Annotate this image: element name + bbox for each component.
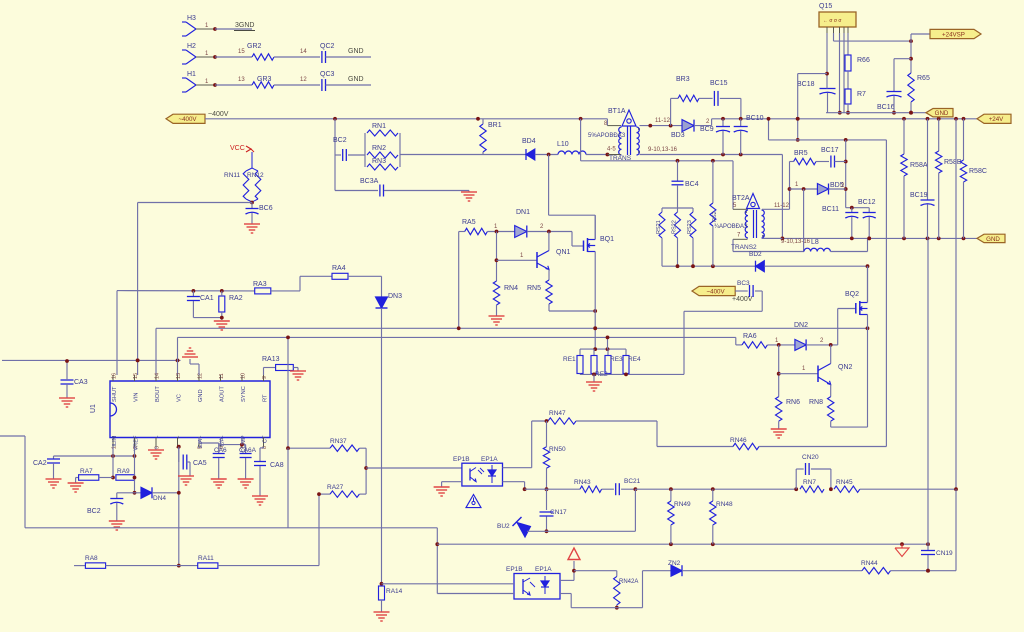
svg-text:15: 15	[238, 49, 245, 55]
svg-text:RS23: RS23	[687, 220, 693, 234]
svg-text:BC10: BC10	[746, 115, 764, 122]
svg-text:RN45: RN45	[836, 479, 853, 486]
svg-text:EP1B: EP1B	[506, 566, 523, 573]
svg-text:RN43: RN43	[574, 479, 591, 486]
svg-text:14: 14	[155, 373, 161, 379]
svg-text:BC21: BC21	[624, 478, 641, 485]
svg-text:VIN: VIN	[133, 393, 139, 402]
svg-text:DN1: DN1	[516, 209, 530, 216]
svg-text:RA4: RA4	[332, 265, 346, 272]
svg-text:RA14: RA14	[386, 588, 403, 595]
svg-text:BD2: BD2	[749, 251, 762, 258]
svg-text:ZN2: ZN2	[668, 560, 681, 567]
svg-text:QN2: QN2	[838, 364, 853, 371]
svg-text:11-12: 11-12	[655, 118, 671, 124]
svg-text:BQ2: BQ2	[845, 291, 859, 298]
svg-text:¾APOBĐAЗ: ¾APOBĐAЗ	[714, 224, 748, 230]
svg-text:H2: H2	[187, 43, 196, 50]
svg-text:BQ1: BQ1	[600, 236, 614, 243]
svg-text:3GND: 3GND	[235, 22, 254, 29]
svg-text:RS22: RS22	[672, 220, 678, 234]
svg-text:RA13: RA13	[262, 356, 280, 363]
svg-text:9-10,13-16: 9-10,13-16	[781, 239, 811, 245]
svg-text:DN4: DN4	[153, 495, 166, 502]
svg-text:BC2: BC2	[87, 508, 101, 515]
svg-text:RN2: RN2	[372, 145, 386, 152]
svg-text:CN19: CN19	[936, 550, 953, 557]
svg-text:R66: R66	[857, 57, 870, 64]
svg-text:VCC: VCC	[230, 145, 245, 152]
svg-text:GND: GND	[348, 76, 364, 83]
svg-text:~400V: ~400V	[707, 288, 726, 295]
svg-text:CA2: CA2	[33, 460, 47, 467]
svg-text:RT: RT	[262, 394, 268, 402]
svg-text:GND: GND	[198, 389, 204, 402]
svg-text:L10: L10	[557, 141, 569, 148]
svg-text:5%APOBĐAЗ: 5%APOBĐAЗ	[588, 133, 626, 139]
svg-text:13: 13	[176, 373, 182, 379]
svg-text:-: -	[155, 435, 161, 437]
svg-text:RN37: RN37	[330, 438, 347, 445]
svg-text:BC3A: BC3A	[360, 178, 379, 185]
svg-text:BC9: BC9	[700, 126, 714, 133]
svg-text:11-12: 11-12	[774, 203, 790, 209]
svg-text:CA3: CA3	[74, 379, 88, 386]
svg-text:U1: U1	[90, 404, 97, 413]
svg-text:BT1A: BT1A	[608, 108, 626, 115]
svg-text:BR5: BR5	[794, 150, 808, 157]
svg-text:CN20: CN20	[802, 454, 819, 461]
svg-text:H3: H3	[187, 15, 196, 22]
svg-text:BC4: BC4	[685, 181, 699, 188]
svg-text:RN49: RN49	[674, 501, 691, 508]
svg-text:H1: H1	[187, 71, 196, 78]
svg-text:EP1A: EP1A	[481, 456, 498, 463]
svg-text:RN44: RN44	[861, 560, 878, 567]
svg-text:BC16: BC16	[877, 104, 895, 111]
svg-text:BR3: BR3	[676, 76, 690, 83]
svg-text:BC12: BC12	[858, 199, 876, 206]
svg-text:BC18: BC18	[797, 81, 815, 88]
svg-text:BC6: BC6	[259, 205, 273, 212]
svg-text:CA6A: CA6A	[239, 447, 257, 454]
svg-text:BC11: BC11	[822, 206, 839, 213]
svg-text:BC15: BC15	[710, 80, 728, 87]
svg-text:CT: CT	[262, 435, 268, 443]
svg-text:GND: GND	[986, 236, 1000, 243]
svg-text:RN6: RN6	[786, 399, 800, 406]
svg-text:R58B: R58B	[944, 159, 962, 166]
svg-text:L8: L8	[811, 239, 819, 246]
svg-text:BU2: BU2	[497, 523, 510, 530]
svg-text:QC3: QC3	[320, 71, 335, 78]
svg-text:CA5: CA5	[193, 460, 207, 467]
svg-text:RN12: RN12	[247, 172, 264, 179]
svg-text:CN17: CN17	[550, 509, 567, 516]
svg-text:+24V: +24V	[989, 116, 1004, 123]
svg-text:~400V: ~400V	[178, 116, 197, 123]
svg-text:RN11: RN11	[224, 172, 241, 179]
svg-text:BT2A: BT2A	[732, 195, 750, 202]
svg-text:RE3: RE3	[610, 356, 623, 363]
svg-text:12: 12	[300, 77, 307, 83]
svg-text:ILIM: ILIM	[112, 435, 118, 446]
svg-text:~400V: ~400V	[208, 111, 229, 118]
svg-text:RN47: RN47	[549, 410, 566, 417]
svg-text:QN1: QN1	[556, 249, 571, 256]
svg-text:RA11: RA11	[198, 555, 214, 562]
svg-text:RA8: RA8	[85, 555, 98, 562]
svg-text:QC2: QC2	[320, 43, 335, 50]
svg-text:RN8: RN8	[809, 399, 823, 406]
svg-text:CA6: CA6	[214, 447, 227, 454]
svg-text:RA2: RA2	[229, 295, 243, 302]
svg-text:RN3: RN3	[372, 158, 386, 165]
svg-text:BC3: BC3	[737, 280, 750, 287]
svg-text:RN5: RN5	[527, 285, 541, 292]
svg-text:9-10,13-16: 9-10,13-16	[648, 147, 678, 153]
svg-text:RE1: RE1	[563, 356, 576, 363]
svg-text:BC17: BC17	[821, 147, 839, 154]
svg-text:12: 12	[198, 373, 204, 379]
svg-text:RN46: RN46	[730, 437, 747, 444]
svg-text:11: 11	[219, 373, 225, 379]
svg-text:SYNC: SYNC	[241, 386, 247, 402]
svg-text:RN7: RN7	[803, 479, 816, 486]
svg-text:CA1: CA1	[200, 295, 214, 302]
svg-text:RS2: RS2	[712, 211, 718, 222]
svg-text:VC: VC	[176, 394, 182, 402]
svg-text:BD3: BD3	[671, 132, 685, 139]
svg-text:15: 15	[133, 373, 139, 379]
svg-text:R65: R65	[917, 75, 930, 82]
svg-text:CA8: CA8	[270, 462, 284, 469]
svg-text:R7: R7	[857, 91, 866, 98]
svg-text:+24VSP: +24VSP	[942, 31, 965, 38]
svg-text:RN48: RN48	[716, 501, 733, 508]
svg-text:RE4: RE4	[628, 356, 641, 363]
svg-text:GND: GND	[348, 48, 364, 55]
svg-text:3: 3	[155, 446, 161, 449]
svg-text:RA9: RA9	[117, 468, 130, 475]
svg-text:BC19: BC19	[910, 192, 928, 199]
svg-text:10: 10	[241, 373, 247, 379]
svg-text:RN50: RN50	[549, 446, 566, 453]
svg-text:BD4: BD4	[522, 138, 536, 145]
svg-text:AOUT: AOUT	[219, 386, 225, 402]
svg-text:EP1B: EP1B	[453, 456, 470, 463]
svg-text:14: 14	[300, 49, 307, 55]
svg-text:GR3: GR3	[257, 76, 272, 83]
svg-text:BR1: BR1	[488, 122, 502, 129]
svg-text:4-5: 4-5	[607, 147, 616, 153]
svg-text:GND: GND	[935, 110, 949, 117]
svg-text:RN42A: RN42A	[619, 579, 638, 585]
svg-text:RA5: RA5	[462, 219, 476, 226]
svg-text:RN4: RN4	[504, 285, 518, 292]
svg-text:EP1A: EP1A	[535, 566, 552, 573]
svg-text:RN1: RN1	[372, 123, 386, 130]
svg-text:TRANS2: TRANS2	[731, 244, 757, 251]
svg-text:13: 13	[238, 77, 245, 83]
svg-text:DN2: DN2	[794, 322, 808, 329]
svg-text:+400V: +400V	[732, 296, 753, 303]
svg-text:RA7: RA7	[80, 468, 93, 475]
svg-text:16: 16	[112, 373, 118, 379]
svg-text:← σ σ σ: ← σ σ σ	[823, 18, 842, 24]
svg-text:DN3: DN3	[388, 293, 402, 300]
svg-text:SHUT: SHUT	[112, 386, 118, 402]
svg-text:BOUT: BOUT	[155, 386, 161, 402]
svg-text:RA3: RA3	[253, 281, 267, 288]
svg-text:RS21: RS21	[656, 220, 662, 234]
svg-text:9: 9	[262, 376, 268, 379]
svg-text:R58C: R58C	[969, 168, 987, 175]
svg-text:RA6: RA6	[743, 333, 757, 340]
svg-text:BC2: BC2	[333, 137, 347, 144]
svg-text:GR2: GR2	[247, 43, 262, 50]
svg-text:Q15: Q15	[819, 3, 832, 10]
svg-text:RA27: RA27	[327, 484, 344, 491]
svg-text:R58A: R58A	[910, 162, 928, 169]
